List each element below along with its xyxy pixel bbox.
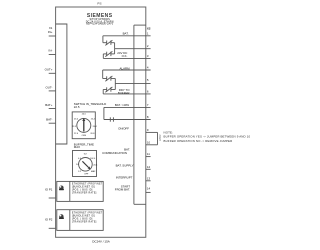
svg-text:INTERRUPT: INTERRUPT	[116, 175, 133, 179]
svg-text:22.5: 22.5	[74, 105, 80, 109]
svg-text:OUT-: OUT-	[45, 85, 52, 89]
svg-text:102.0: 102.0	[90, 158, 96, 160]
svg-text:BAT-: BAT-	[46, 118, 52, 122]
jumper 9-10	[157, 132, 159, 144]
potentiometer R2 buffer time	[73, 142, 99, 176]
relay contact K2 NC	[103, 84, 115, 94]
wire pin 3	[103, 57, 150, 59]
svg-text:DC24V / 15A: DC24V / 15A	[92, 239, 110, 243]
svg-text:COMMUNICATION: COMMUNICATION	[102, 151, 127, 155]
relay contact K2 NO	[103, 70, 116, 84]
svg-text:6EP4134-3AB00-2AY0: 6EP4134-3AB00-2AY0	[86, 23, 114, 26]
svg-text:OBS: OBS	[82, 135, 87, 137]
potentiometer R1 switch-in threshold	[72, 102, 106, 139]
svg-text:13: 13	[147, 176, 151, 180]
svg-text:IO P2: IO P2	[45, 217, 53, 221]
pin stub 10	[146, 144, 158, 146]
svg-text:PS: PS	[97, 2, 101, 6]
svg-text:[TRANSFER RATE]: [TRANSFER RATE]	[72, 192, 97, 195]
svg-text:ON/OFF: ON/OFF	[118, 126, 129, 130]
pin stub 14	[146, 191, 151, 193]
ethernet port block P2	[57, 210, 103, 231]
svg-text:OUT+: OUT+	[45, 68, 53, 72]
wire pin 7	[104, 106, 151, 108]
svg-text:FROM BAT.: FROM BAT.	[115, 188, 130, 192]
terminal strip X2	[134, 24, 146, 26]
svg-text:BUFFER OPERATION NO -> REMOVE: BUFFER OPERATION NO -> REMOVE JUMPER	[164, 139, 233, 143]
svg-text:11: 11	[147, 152, 150, 156]
svg-text:IN-: IN-	[49, 49, 53, 53]
svg-text:BUFFER: BUFFER	[118, 91, 130, 95]
wire pin 5	[115, 83, 150, 85]
svg-text:[POS. | BUS ID]: [POS. | BUS ID]	[72, 219, 93, 221]
svg-text:O.K.: O.K.	[122, 54, 128, 58]
pin stub 11	[146, 156, 151, 158]
switch contact ON/OFF	[104, 107, 114, 121]
svg-text:BAT. >40%: BAT. >40%	[115, 103, 130, 107]
svg-text:[BUNDLE/NET ID]: [BUNDLE/NET ID]	[72, 186, 95, 188]
wire pin 8	[104, 119, 151, 121]
svg-text:12: 12	[147, 165, 151, 169]
svg-text:Jumper: Jumper	[159, 134, 162, 141]
svg-text:ALARM: ALARM	[120, 67, 131, 71]
pin stub 12	[146, 168, 151, 170]
wire pin 2	[115, 48, 151, 50]
svg-text:IN+: IN+	[48, 30, 53, 34]
svg-text:ETHERNET /PROFINET: ETHERNET /PROFINET	[72, 212, 103, 214]
svg-text:[POS. | BUS ID]: [POS. | BUS ID]	[72, 190, 93, 192]
relay contact K1 NC	[103, 49, 114, 59]
svg-text:MAX: MAX	[74, 145, 80, 149]
main device box U1	[56, 7, 146, 237]
wire pin 6	[103, 93, 150, 95]
svg-text:OFF: OFF	[84, 173, 89, 175]
svg-text:X2: X2	[147, 27, 151, 31]
ethernet port block P1	[57, 181, 103, 201]
svg-text:10: 10	[147, 140, 151, 144]
svg-text:BAT.: BAT.	[123, 31, 129, 35]
svg-text:ETHERNET /PROFINET: ETHERNET /PROFINET	[72, 183, 103, 185]
svg-text:14: 14	[147, 187, 151, 191]
svg-text:IO P1: IO P1	[45, 188, 53, 192]
svg-text:MAX: MAX	[91, 170, 96, 173]
pin stub 13	[146, 180, 151, 182]
relay contact K1 NO	[103, 36, 115, 49]
wire pin 1	[103, 35, 151, 37]
pin stub 9	[146, 131, 158, 133]
svg-text:BAT. SUPPLY: BAT. SUPPLY	[116, 163, 134, 167]
wire inner bus	[56, 24, 67, 144]
svg-text:[TRANSFER RATE]: [TRANSFER RATE]	[72, 221, 97, 224]
svg-text:[BUNDLE/NET ID]: [BUNDLE/NET ID]	[72, 215, 95, 217]
wire pin 4	[103, 69, 151, 71]
svg-text:BAT+: BAT+	[45, 103, 52, 107]
